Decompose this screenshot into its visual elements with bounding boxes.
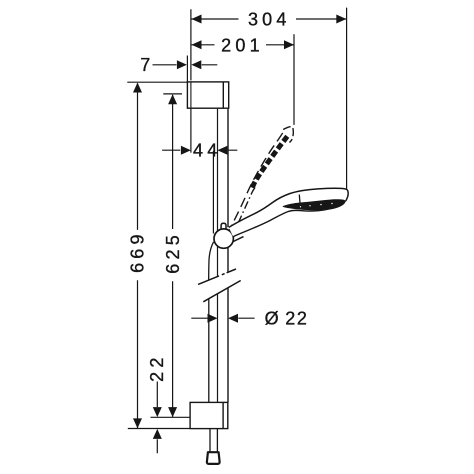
- svg-text:625: 625: [163, 231, 183, 274]
- wire dim 22 bottom: [153, 382, 162, 454]
- wire 669 bottom reference line: [128, 428, 190, 430]
- wire 201 right extension line: [293, 34, 295, 125]
- svg-text:201: 201: [221, 35, 264, 55]
- bar right edge: [227, 109, 229, 403]
- wire 304 right extension line: [346, 8, 348, 189]
- svg-text:22: 22: [285, 309, 308, 329]
- svg-text:669: 669: [128, 230, 148, 273]
- bottom bracket: [190, 402, 228, 428]
- spray face dark: [283, 199, 346, 210]
- dashed shower head: [283, 126, 293, 142]
- wire 669 top reference line: [127, 81, 187, 83]
- wire dim 44 line: [162, 146, 237, 155]
- wire wall reference line: [190, 9, 192, 152]
- svg-text:7: 7: [140, 55, 150, 75]
- head button tick: [298, 195, 301, 203]
- wire dim 304 line: [192, 15, 347, 24]
- dashed shower inner line: [238, 187, 255, 223]
- wire 625 bottom reference line: [151, 416, 191, 418]
- bar inner highlight line: [212, 151, 214, 234]
- dashed shower outline left: [228, 130, 285, 234]
- wire dim 669 vertical line: [133, 83, 142, 429]
- wire dim 201 line: [192, 40, 295, 49]
- spray face white specks: [300, 203, 333, 208]
- bar left edge: [217, 109, 219, 403]
- wire 625 top reference line: [163, 93, 182, 95]
- wire 7-left extension line: [186, 56, 188, 82]
- svg-text:Ø: Ø: [265, 309, 279, 329]
- break mark upper: [198, 269, 236, 284]
- hand shower body: [229, 188, 348, 241]
- dashed shower spray face: [252, 136, 287, 188]
- svg-text:22: 22: [147, 353, 167, 381]
- break mark lower: [203, 281, 240, 302]
- hose end fitting: [207, 452, 220, 464]
- hose below bracket: [210, 429, 217, 452]
- wire dim 7 line: [153, 60, 218, 69]
- top bracket: [187, 82, 228, 108]
- wire dim 625 vertical line: [168, 94, 177, 417]
- holder knob: [221, 223, 226, 229]
- holder ball: [214, 229, 233, 248]
- svg-text:304: 304: [248, 10, 291, 30]
- wire dim diameter 22 line: [191, 314, 254, 323]
- hose upper section: [209, 242, 214, 429]
